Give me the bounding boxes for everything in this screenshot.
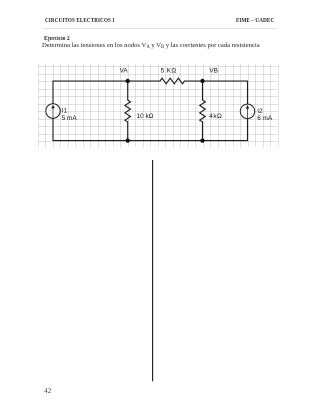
svg-text:10 kΩ: 10 kΩ xyxy=(137,113,154,120)
wire: node VA down to resistor 10 kΩ xyxy=(127,81,129,100)
wire: node VB down to resistor 4kΩ xyxy=(202,81,204,100)
current source I2 (circle with up arrow) xyxy=(240,104,254,118)
resistor 10 kΩ (vertical zigzag) xyxy=(125,100,131,122)
svg-text:6 mA: 6 mA xyxy=(257,115,273,122)
wire: right branch below I2 xyxy=(247,119,249,141)
node VB junction dot xyxy=(200,79,204,83)
header left text xyxy=(45,18,114,24)
wire: left branch above I1 xyxy=(52,81,54,104)
wire: resistor 10 kΩ to bottom rail xyxy=(127,122,129,141)
wire: left branch below I1 xyxy=(52,118,54,140)
header right text xyxy=(236,18,274,24)
exercise statement xyxy=(42,43,260,51)
vertical divider line xyxy=(152,160,154,381)
wire: top rail, left corner to node VA xyxy=(53,80,128,82)
svg-text:I2: I2 xyxy=(257,108,263,115)
wire: node VA to resistor 5 KΩ xyxy=(128,80,160,82)
wire: resistor 5 KΩ to node VB xyxy=(185,80,203,82)
svg-text:5 KΩ: 5 KΩ xyxy=(161,68,177,75)
resistor 5 KΩ (horizontal zigzag) xyxy=(160,78,184,84)
svg-text:I1: I1 xyxy=(62,108,68,115)
wire: resistor 4kΩ to bottom rail xyxy=(202,122,204,141)
header rule xyxy=(44,27,277,30)
wire: node VB to top right corner xyxy=(203,80,248,82)
current source I1 (circle with up arrow) xyxy=(46,104,60,118)
node VA junction dot xyxy=(126,79,130,83)
svg-text:4kΩ: 4kΩ xyxy=(209,113,222,120)
exercise title xyxy=(44,36,70,42)
svg-text:VA: VA xyxy=(120,68,129,75)
junction dot bottom under VA xyxy=(126,138,130,142)
page number 42 xyxy=(44,389,51,396)
junction dot bottom under VB xyxy=(200,138,204,142)
wire: right branch above I2 xyxy=(247,81,249,104)
svg-text:5 mA: 5 mA xyxy=(62,115,78,122)
resistor 4kΩ (vertical zigzag) xyxy=(200,100,206,122)
svg-text:VB: VB xyxy=(209,68,218,75)
wire: bottom rail xyxy=(53,140,248,142)
